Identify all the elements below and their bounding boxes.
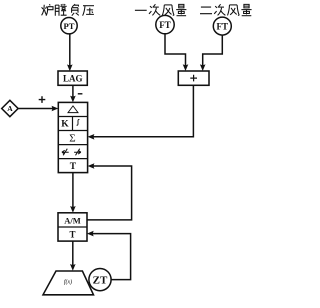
svg-text:LAG: LAG [63,73,83,83]
svg-text:PT: PT [64,21,75,31]
svg-text:A/M: A/M [64,215,81,225]
svg-text:K: K [61,119,69,129]
svg-text:Σ: Σ [69,132,75,144]
svg-text:A: A [7,104,13,113]
svg-text:T: T [69,230,75,240]
svg-text:FT: FT [159,20,171,30]
svg-text:FT: FT [217,21,229,31]
svg-text:ZT: ZT [93,275,108,287]
svg-text:T: T [70,162,77,172]
svg-text:f(x): f(x) [64,279,72,286]
